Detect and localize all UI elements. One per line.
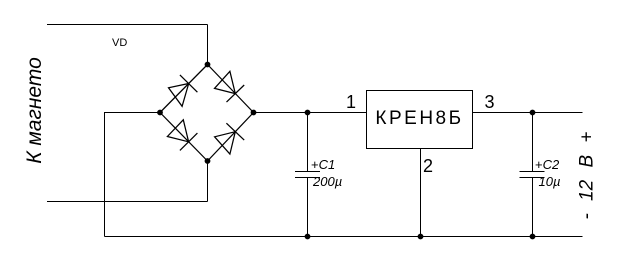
wire: C1 bottom lead [307, 178, 309, 237]
wire: regulator pin 2 lead to ground bus [420, 149, 422, 237]
diode VD upper-left (left node to top node) [169, 75, 198, 106]
capacitor C2 bottom plate [520, 177, 545, 179]
node: bridge right (DC plus) [251, 110, 257, 116]
diode VD lower-left (left node to bottom node) [167, 120, 197, 151]
voltage regulator U1 KREN8B box [367, 91, 473, 149]
wire: bridge plus output to regulator pin 1 [254, 112, 367, 114]
wire: regulator pin 3 output to the right [473, 112, 583, 114]
svg-text:- 12 В +: - 12 В + [577, 131, 598, 219]
wire: magneto top terminal horizontal [47, 24, 208, 26]
svg-text:10µ: 10µ [539, 174, 561, 189]
wire: C2 top lead [532, 113, 534, 172]
node: bridge left (DC minus) [157, 110, 163, 116]
diode VD lower-right (bottom node to right node) [215, 123, 245, 154]
wire: bridge edge bottom-right [208, 113, 254, 162]
node: bridge bottom (AC input 2) [205, 158, 211, 164]
wire: bridge edge left-bottom [160, 113, 208, 162]
node: C1 top junction [305, 110, 311, 116]
diode VD upper-right (top node to right node) [215, 71, 245, 102]
wire: bridge edge left-top [160, 65, 208, 113]
svg-text:1: 1 [346, 92, 356, 112]
capacitor C2 top plate [520, 171, 545, 173]
node: C2 bottom junction on ground bus [530, 234, 536, 240]
wire: bottom ground bus [105, 236, 583, 238]
svg-text:К магнето: К магнето [23, 57, 46, 164]
svg-text:+C2: +C2 [535, 157, 560, 172]
wire: left vertical (bridge minus to ground bus) [104, 112, 106, 237]
wire: stub to bridge left node [105, 112, 161, 114]
svg-text:2: 2 [423, 156, 433, 176]
svg-text:+C1: +C1 [311, 157, 335, 172]
node: pin 2 junction on ground bus [418, 234, 424, 240]
wire: vertical drop to bridge top node [207, 25, 209, 65]
svg-text:VD: VD [112, 37, 127, 49]
node: C1 bottom junction on ground bus [305, 234, 311, 240]
wire: bridge edge top-right [208, 65, 254, 113]
svg-text:3: 3 [484, 92, 494, 112]
wire: magneto bottom terminal horizontal [47, 201, 208, 203]
capacitor C1 bottom plate [295, 177, 320, 179]
wire: C2 bottom lead [532, 178, 534, 237]
node: bridge top (AC input 1) [205, 62, 211, 68]
svg-text:200µ: 200µ [312, 174, 342, 189]
wire: bridge bottom node down to magneto wire [207, 161, 209, 202]
svg-text:КРЕН8Б: КРЕН8Б [375, 108, 463, 129]
capacitor C1 top plate [295, 171, 320, 173]
wire: C1 top lead [307, 113, 309, 172]
node: C2 top junction [530, 110, 536, 116]
